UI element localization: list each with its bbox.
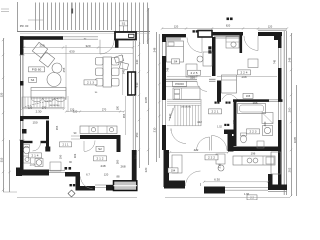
svg-text:218: 218 bbox=[218, 163, 222, 168]
svg-text:6.30: 6.30 bbox=[214, 178, 220, 182]
svg-text:229: 229 bbox=[39, 44, 44, 48]
svg-text:270: 270 bbox=[42, 106, 47, 110]
svg-text:260: 260 bbox=[263, 121, 267, 126]
svg-text:255: 255 bbox=[62, 67, 66, 72]
svg-text:88: 88 bbox=[117, 175, 120, 179]
svg-text:2 2 1: 2 2 1 bbox=[212, 110, 219, 114]
svg-text:120: 120 bbox=[174, 25, 179, 29]
svg-text:2 2 3: 2 2 3 bbox=[250, 130, 257, 134]
svg-text:(90/18/28t): (90/18/28t) bbox=[49, 104, 60, 107]
svg-text:348: 348 bbox=[288, 57, 292, 62]
svg-text:120: 120 bbox=[70, 107, 75, 111]
svg-text:2 1 3: 2 1 3 bbox=[87, 81, 94, 85]
svg-text:510: 510 bbox=[0, 157, 4, 162]
svg-text:120: 120 bbox=[268, 25, 273, 29]
svg-text:194: 194 bbox=[171, 169, 176, 173]
svg-text:248: 248 bbox=[100, 164, 105, 168]
svg-text:422: 422 bbox=[194, 148, 199, 152]
svg-text:1.02: 1.02 bbox=[217, 126, 222, 129]
svg-text:S1: S1 bbox=[122, 22, 126, 26]
svg-text:270: 270 bbox=[102, 107, 107, 111]
svg-text:260: 260 bbox=[116, 159, 120, 164]
svg-text:196: 196 bbox=[251, 152, 256, 156]
svg-text:310: 310 bbox=[153, 127, 157, 132]
svg-text:196: 196 bbox=[252, 101, 257, 105]
svg-text:202: 202 bbox=[288, 167, 292, 172]
svg-text:748: 748 bbox=[166, 67, 170, 72]
svg-text:180: 180 bbox=[117, 105, 120, 110]
svg-text:PID60: PID60 bbox=[175, 82, 184, 86]
svg-text:150: 150 bbox=[32, 121, 37, 125]
svg-text:355: 355 bbox=[122, 113, 126, 118]
svg-text:182: 182 bbox=[233, 119, 236, 124]
svg-text:1005: 1005 bbox=[293, 136, 297, 143]
svg-text:6.7: 6.7 bbox=[86, 173, 90, 177]
svg-text:1005: 1005 bbox=[144, 96, 148, 103]
svg-text:2 1 1: 2 1 1 bbox=[63, 143, 69, 147]
svg-text:PID 60: PID 60 bbox=[32, 68, 42, 72]
svg-text:S4: S4 bbox=[174, 60, 178, 64]
svg-text:320: 320 bbox=[144, 167, 148, 172]
svg-text:S4: S4 bbox=[31, 78, 35, 82]
svg-text:S2: S2 bbox=[98, 147, 102, 151]
svg-text:2.30: 2.30 bbox=[36, 109, 42, 113]
svg-text:165: 165 bbox=[246, 94, 251, 98]
svg-text:422: 422 bbox=[197, 120, 202, 124]
svg-text:748: 748 bbox=[274, 59, 277, 64]
svg-text:320: 320 bbox=[0, 92, 4, 97]
svg-text:510: 510 bbox=[135, 82, 139, 87]
svg-text:340: 340 bbox=[135, 59, 139, 64]
svg-text:150: 150 bbox=[29, 163, 34, 167]
svg-text:2 2 2: 2 2 2 bbox=[208, 156, 215, 160]
svg-text:120: 120 bbox=[104, 173, 109, 177]
svg-text:355: 355 bbox=[55, 125, 59, 130]
svg-text:2 2 5: 2 2 5 bbox=[191, 71, 198, 75]
svg-text:630: 630 bbox=[69, 50, 74, 54]
svg-text:PR. 00: PR. 00 bbox=[20, 24, 29, 28]
svg-text:348: 348 bbox=[153, 47, 157, 52]
svg-text:303: 303 bbox=[73, 153, 77, 158]
svg-text:2 1 2: 2 1 2 bbox=[97, 157, 104, 161]
svg-text:(90/18/28t): (90/18/28t) bbox=[181, 105, 191, 108]
svg-text:268: 268 bbox=[120, 165, 125, 169]
svg-text:360: 360 bbox=[134, 154, 138, 159]
svg-text:340: 340 bbox=[122, 69, 126, 74]
svg-text:620: 620 bbox=[226, 24, 231, 28]
svg-text:2 1 4: 2 1 4 bbox=[32, 154, 39, 158]
svg-text:190: 190 bbox=[59, 154, 63, 159]
svg-text:260: 260 bbox=[288, 107, 292, 112]
svg-text:310: 310 bbox=[168, 113, 172, 118]
svg-text:120: 120 bbox=[28, 106, 33, 110]
svg-text:298: 298 bbox=[241, 75, 246, 79]
svg-text:350: 350 bbox=[135, 132, 139, 137]
